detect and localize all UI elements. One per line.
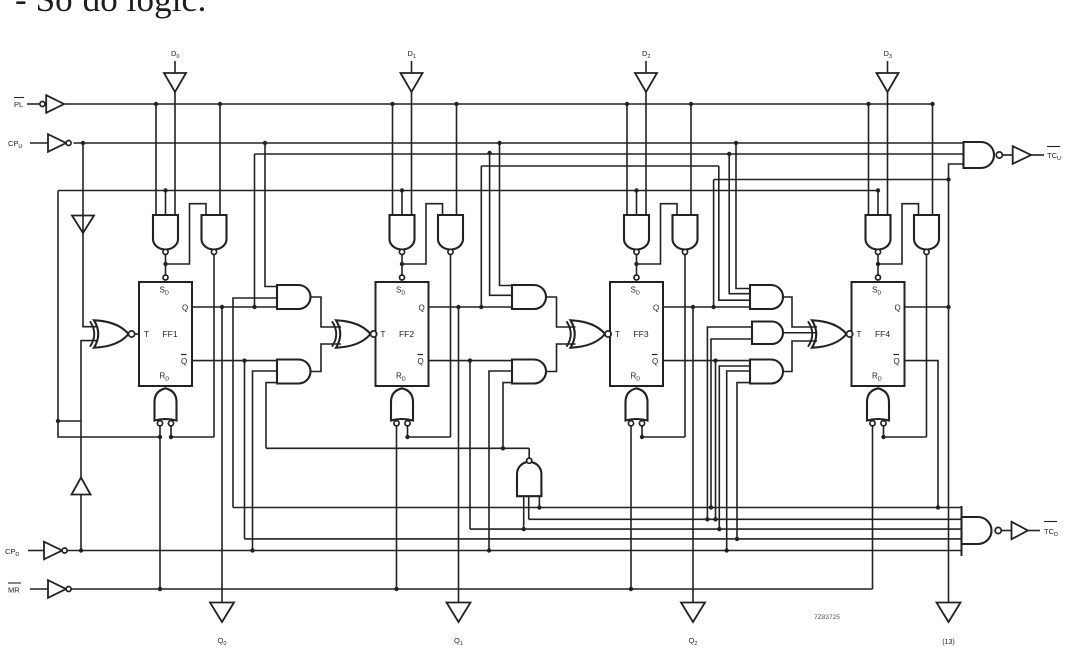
svg-text:7Z83725: 7Z83725 (814, 614, 840, 621)
svg-text:Q: Q (652, 357, 658, 366)
svg-text:PL: PL (14, 100, 23, 109)
svg-text:FF1: FF1 (162, 329, 177, 339)
svg-text:- Sơ đồ logic:: - Sơ đồ logic: (15, 0, 207, 19)
svg-text:T: T (381, 330, 386, 339)
svg-text:T: T (615, 330, 620, 339)
svg-text:T: T (144, 330, 149, 339)
svg-text:(13): (13) (942, 639, 954, 646)
svg-text:T: T (857, 330, 862, 339)
svg-text:FF2: FF2 (399, 329, 414, 339)
svg-text:Q: Q (653, 304, 659, 313)
svg-text:FF3: FF3 (633, 329, 648, 339)
svg-text:Q: Q (895, 304, 901, 313)
svg-text:Q: Q (418, 357, 424, 366)
svg-text:Q: Q (419, 304, 425, 313)
svg-text:FF4: FF4 (875, 329, 890, 339)
svg-text:Q: Q (181, 357, 187, 366)
svg-text:Q: Q (182, 304, 188, 313)
svg-text:Q: Q (894, 357, 900, 366)
svg-text:MR: MR (8, 586, 20, 595)
